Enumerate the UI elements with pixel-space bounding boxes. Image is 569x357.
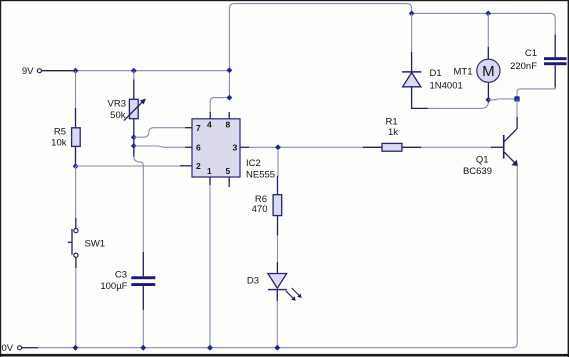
wire pin 3 to R1 [249,146,363,148]
wire 9V junction down to VR3 lead [133,71,135,80]
wire R6 to D3 [277,236,279,263]
op-amp style IC U1 body: timer IC2 NE555 [192,119,275,181]
junction VR3 bottom node B [131,143,137,149]
svg-text:100µF: 100µF [100,281,127,292]
svg-text:MT1: MT1 [454,67,473,78]
junction R5-SW1-pin2 node [73,163,79,169]
svg-text:Q1: Q1 [476,154,489,165]
wire motor node to collector node [488,98,517,101]
transistor Q1 [463,117,518,177]
svg-text:BC639: BC639 [463,166,492,177]
svg-text:M: M [482,63,495,80]
wire C1 bottom to collector node [517,88,555,99]
wire pin4-pin8 bracket [210,98,229,112]
svg-text:1N4001: 1N4001 [430,80,463,91]
svg-text:50k: 50k [110,110,126,121]
wire IC pin 6 stub [185,146,192,148]
node 9V terminal [22,66,42,77]
wire 0V terminal stub [22,347,38,349]
resistor R6 [252,176,282,236]
wire 9V rail [76,70,230,72]
wire rail to motor [487,13,489,47]
svg-text:10k: 10k [51,138,67,149]
svg-text:9V: 9V [22,66,34,77]
junction motor bottom node [486,97,492,103]
wire collector node down to Q1 [516,99,518,117]
wire 9V junction down to R5 lead [75,71,77,108]
junction 9V rail meets riser [227,67,233,73]
wire upper rail to C1 [412,13,556,34]
wire pin 1 to 0V rail [209,185,211,347]
resistor R1 [363,116,421,151]
svg-text:8: 8 [226,120,231,130]
junction VR3 bottom node A [131,134,137,140]
node 0V terminal [2,343,22,354]
wire IC pin 7 stub [185,127,192,129]
svg-text:SW1: SW1 [85,238,106,249]
svg-text:NE555: NE555 [246,169,275,180]
wire R1 to Q1 base [421,146,492,148]
junction collector node square [514,96,519,101]
junction 0V rail at D3 [274,345,280,351]
wire C3 to 0V rail [142,310,144,348]
motor MT1 [454,47,501,100]
junction 0V rail at C3 [140,345,146,351]
svg-text:VR3: VR3 [108,99,126,110]
junction pin8 Vcc [227,95,233,101]
svg-text:6: 6 [196,143,201,153]
wire pin3 junction down to R6 [277,151,280,176]
svg-text:D3: D3 [247,275,259,286]
wire SW1 to 0V rail [75,268,77,348]
wire D3 to 0V rail [276,301,278,348]
svg-text:1k: 1k [388,127,398,138]
svg-text:470: 470 [252,204,268,215]
wire node B down to C3 [134,146,144,252]
wire Q1 base stub [491,146,503,148]
wire IC pin 2 stub [180,165,192,167]
wire D1 anode to motor node [428,100,488,109]
svg-text:1: 1 [207,166,212,176]
wire dark segment below node B [133,146,135,157]
junction 0V rail at SW1 [73,345,79,351]
svg-text:D1: D1 [430,68,442,79]
svg-text:220nF: 220nF [510,61,537,72]
svg-text:2: 2 [196,161,201,171]
junction on 9V rail at R5 [73,68,79,74]
wire IC pin 1 stub [209,177,211,185]
LED D3 [247,262,302,301]
wire rail to D1 [411,13,413,52]
svg-text:IC2: IC2 [246,158,261,169]
capacitor C1 [510,35,567,88]
junction pin 3 node [275,144,281,150]
svg-text:R1: R1 [386,116,398,127]
wire IC pin 5 stub [228,177,230,187]
wire Vcc riser and top rail [229,4,411,98]
junction 0V rail at pin 1 [207,345,213,351]
wire 9V terminal stub [42,70,76,72]
diode D1 [402,52,463,108]
wire node A to IC pin 7 [134,128,185,138]
svg-text:R5: R5 [54,127,66,138]
potentiometer VR3 [108,80,146,147]
svg-text:4: 4 [207,120,212,130]
resistor R5 [51,108,80,166]
junction upper rail at D1 [409,11,415,17]
svg-text:0V: 0V [2,343,14,354]
wire node to IC pin 2 [76,165,181,167]
capacitor C3 [100,252,155,310]
wire Q1 emitter to 0V rail [38,166,517,348]
switch SW1 [68,218,105,268]
junction on 9V rail at VR3 [131,68,137,74]
wire IC pin 4 stub [209,112,211,119]
svg-text:C3: C3 [115,269,127,280]
wire node B to IC pin 6 [134,146,185,147]
svg-text:3: 3 [233,143,238,153]
junction upper rail at motor [485,11,491,17]
svg-text:C1: C1 [525,48,537,59]
wire IC pin 8 stub [228,112,230,119]
wire junction down to SW1 [75,166,77,218]
svg-text:5: 5 [226,166,231,176]
svg-text:7: 7 [196,123,201,133]
wire IC pin 3 stub [240,146,249,148]
